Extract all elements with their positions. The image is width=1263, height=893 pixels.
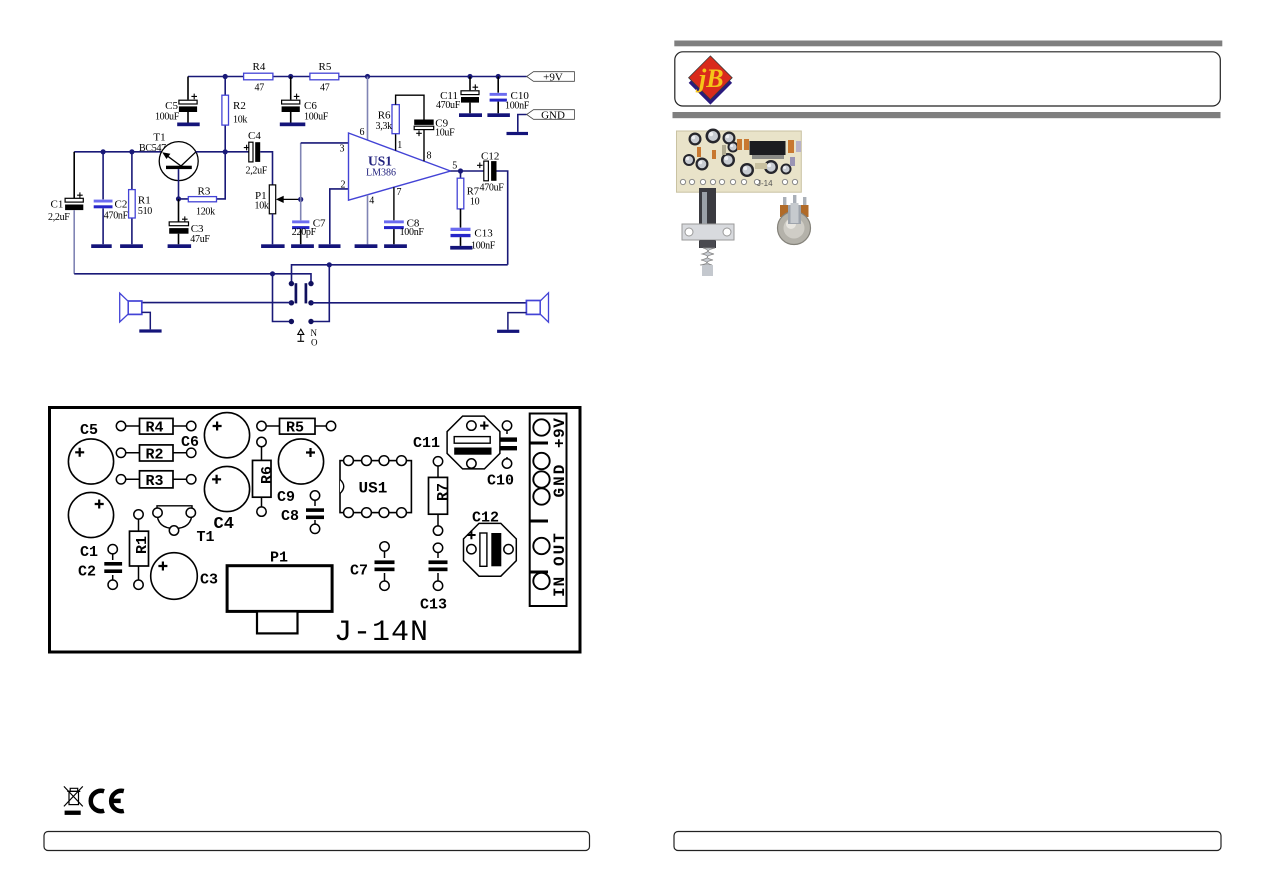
wire +9V top rail bbox=[188, 76, 527, 78]
svg-text:US1: US1 bbox=[368, 153, 392, 168]
wire input net bbox=[74, 151, 162, 153]
svg-text:P1: P1 bbox=[270, 550, 288, 567]
net flag GND bbox=[518, 115, 527, 132]
PCB pad OUT bbox=[533, 538, 549, 554]
PCB capacitor C13 bbox=[433, 543, 442, 552]
svg-text:470nF: 470nF bbox=[104, 210, 129, 221]
resistor R7 bbox=[460, 171, 462, 178]
svg-text:2,2uF: 2,2uF bbox=[48, 212, 70, 223]
wire C4 to P1 bbox=[260, 152, 272, 185]
ground under GND flag bbox=[507, 132, 529, 135]
svg-text:100uF: 100uF bbox=[304, 112, 329, 123]
node input R1 bbox=[129, 149, 134, 154]
logo JB diamond red bbox=[689, 56, 733, 100]
svg-text:OUT: OUT bbox=[551, 531, 569, 566]
svg-text:R5: R5 bbox=[286, 420, 304, 437]
node rail junction pin6 bbox=[365, 74, 370, 79]
svg-text:IN: IN bbox=[551, 576, 569, 597]
wire pin4 bbox=[367, 195, 369, 245]
svg-text:R6: R6 bbox=[259, 466, 276, 484]
node T1 collector bbox=[223, 149, 228, 154]
PCB pad IN bbox=[533, 573, 549, 589]
node rail junction C6 bbox=[288, 74, 293, 79]
svg-text:100nF: 100nF bbox=[505, 101, 530, 112]
svg-text:GND: GND bbox=[551, 463, 569, 498]
svg-text:O: O bbox=[311, 337, 318, 347]
PCB capacitor C10 bbox=[502, 421, 511, 430]
PCB resistor R6 bbox=[261, 447, 263, 507]
svg-text:R6: R6 bbox=[378, 110, 391, 122]
svg-text:T1: T1 bbox=[153, 131, 165, 143]
svg-text:5: 5 bbox=[452, 161, 457, 172]
net flag +9V bbox=[527, 72, 575, 82]
svg-text:100uF: 100uF bbox=[155, 112, 180, 123]
wire C1 to switch net bbox=[73, 210, 75, 274]
wire wiper to pin3 bbox=[300, 143, 302, 200]
node rail junction R2 bbox=[223, 74, 228, 79]
PCB resistor R4 bbox=[121, 425, 191, 427]
svg-text:1: 1 bbox=[397, 140, 402, 151]
CE mark bbox=[91, 791, 124, 811]
svg-text:N: N bbox=[311, 328, 318, 338]
svg-text:C13: C13 bbox=[474, 228, 493, 240]
svg-text:R2: R2 bbox=[233, 100, 246, 112]
resistor R4 bbox=[244, 73, 273, 80]
PCB connector block bbox=[530, 414, 567, 607]
svg-text:470uF: 470uF bbox=[480, 183, 505, 194]
svg-text:C7: C7 bbox=[350, 563, 368, 580]
svg-text:C2: C2 bbox=[78, 564, 96, 581]
capacitor C3 bbox=[178, 199, 180, 222]
svg-text:R4: R4 bbox=[253, 61, 266, 73]
resistor R6 bbox=[395, 134, 397, 151]
svg-text:100nF: 100nF bbox=[471, 240, 496, 251]
svg-text:10uF: 10uF bbox=[435, 128, 455, 139]
resistor R1 bbox=[131, 152, 133, 245]
svg-text:3: 3 bbox=[340, 143, 345, 154]
svg-text:8: 8 bbox=[427, 151, 432, 162]
svg-text:R1: R1 bbox=[138, 195, 151, 207]
gray bar top bbox=[674, 41, 1222, 47]
node rail junction C11 bbox=[467, 74, 472, 79]
svg-text:R3: R3 bbox=[146, 473, 164, 490]
svg-text:4: 4 bbox=[369, 195, 374, 206]
svg-text:220pF: 220pF bbox=[292, 227, 317, 238]
WEEE crossed-out bin symbol bbox=[64, 786, 83, 806]
svg-text:C13: C13 bbox=[420, 597, 447, 614]
resistor R2 bbox=[224, 77, 226, 152]
svg-text:C10: C10 bbox=[487, 473, 514, 490]
capacitor C6 bbox=[290, 77, 292, 100]
svg-text:C1: C1 bbox=[80, 544, 98, 561]
ground under C8 bbox=[384, 244, 407, 248]
svg-text:J-14: J-14 bbox=[757, 179, 773, 188]
capacitor C10 bbox=[497, 77, 499, 93]
node switch net B bbox=[327, 262, 332, 267]
resistor R5 bbox=[310, 73, 339, 80]
footer bar left bbox=[44, 832, 590, 851]
svg-text:C8: C8 bbox=[281, 508, 299, 525]
PCB transistor T1 bbox=[138, 514, 140, 531]
svg-text:+9V: +9V bbox=[551, 418, 569, 448]
svg-text:7: 7 bbox=[397, 187, 402, 198]
capacitor C9 bbox=[414, 120, 434, 125]
node T1 base bbox=[176, 196, 181, 201]
ground under C11 bbox=[459, 113, 482, 117]
svg-text:C6: C6 bbox=[181, 434, 199, 451]
ground under C10 bbox=[487, 113, 510, 117]
svg-text:C9: C9 bbox=[277, 489, 295, 506]
svg-text:100nF: 100nF bbox=[400, 227, 425, 238]
PCB pads GND bbox=[533, 453, 549, 469]
svg-text:10k: 10k bbox=[233, 115, 247, 126]
svg-text:C3: C3 bbox=[191, 223, 204, 235]
svg-text:470uF: 470uF bbox=[436, 100, 461, 111]
ground under C3 bbox=[168, 244, 192, 248]
PCB resistor R5 bbox=[262, 425, 332, 427]
PCB board outline bbox=[50, 408, 581, 653]
node output bbox=[458, 168, 463, 173]
svg-text:R4: R4 bbox=[146, 420, 164, 437]
capacitor C13 bbox=[460, 209, 462, 228]
svg-text:R1: R1 bbox=[134, 536, 151, 554]
svg-text:R7: R7 bbox=[435, 483, 452, 501]
svg-text:3,3k: 3,3k bbox=[376, 121, 393, 132]
svg-text:+9V: +9V bbox=[543, 72, 563, 84]
photo PCB board bbox=[677, 131, 802, 192]
svg-text:C1: C1 bbox=[51, 198, 64, 210]
svg-text:120k: 120k bbox=[196, 207, 215, 218]
ground under C5 bbox=[177, 123, 200, 127]
speaker left bbox=[128, 301, 142, 314]
svg-text:10: 10 bbox=[470, 196, 480, 207]
PCB capacitor C9 bbox=[278, 439, 323, 484]
potentiometer P1 bbox=[269, 185, 275, 214]
gray bar 2 bbox=[673, 112, 1221, 118]
node switch net A bbox=[270, 271, 275, 276]
footer bar right bbox=[674, 832, 1221, 851]
svg-text:47: 47 bbox=[255, 83, 265, 94]
svg-text:C6: C6 bbox=[304, 100, 317, 112]
svg-text:C5: C5 bbox=[80, 422, 98, 439]
svg-text:2: 2 bbox=[341, 179, 346, 190]
PCB capacitor C4 bbox=[204, 466, 249, 511]
PCB resistor R1 bbox=[130, 531, 149, 566]
capacitor C12 bbox=[477, 163, 483, 169]
speaker right bbox=[526, 301, 540, 315]
photo capacitors bbox=[689, 133, 702, 146]
op-amp US1 LM386 bbox=[367, 77, 369, 141]
ground under pin2 bbox=[319, 244, 341, 248]
ground under right speaker bbox=[497, 330, 519, 333]
photo resistors bbox=[737, 139, 742, 150]
photo pads row bbox=[680, 179, 685, 184]
svg-text:510: 510 bbox=[138, 206, 152, 217]
svg-text:R2: R2 bbox=[146, 447, 164, 464]
svg-text:2,2uF: 2,2uF bbox=[246, 166, 268, 177]
svg-text:C5: C5 bbox=[165, 100, 178, 112]
wire R6 to C9 bbox=[396, 95, 424, 119]
ground under C13 bbox=[450, 246, 472, 250]
svg-text:US1: US1 bbox=[359, 480, 388, 498]
PCB resistor R3 bbox=[121, 478, 191, 480]
PCB resistor R2 bbox=[121, 452, 191, 454]
ground under C6 bbox=[280, 123, 306, 127]
svg-text:R5: R5 bbox=[319, 61, 332, 73]
svg-text:jB: jB bbox=[695, 64, 724, 93]
svg-text:10k: 10k bbox=[255, 201, 269, 212]
ground under R1 bbox=[120, 244, 143, 248]
photo IC bbox=[750, 141, 786, 155]
svg-text:6: 6 bbox=[360, 127, 365, 138]
svg-text:C3: C3 bbox=[200, 572, 218, 589]
PCB capacitor C3 bbox=[151, 553, 198, 600]
capacitor C11 bbox=[469, 77, 471, 91]
capacitor C5 bbox=[187, 77, 189, 100]
svg-text:LM386: LM386 bbox=[366, 168, 396, 179]
capacitor C4 bbox=[225, 151, 249, 153]
header box bbox=[675, 52, 1221, 106]
svg-text:C4: C4 bbox=[214, 515, 234, 534]
logo JB diamond shadow bbox=[689, 61, 732, 104]
capacitor C1 bbox=[73, 152, 75, 198]
switch DPST bbox=[289, 281, 294, 286]
svg-text:47: 47 bbox=[320, 83, 330, 94]
wire pin8 bbox=[423, 130, 425, 161]
PCB IC US1 bbox=[340, 461, 411, 513]
node P1 wiper bbox=[298, 197, 303, 202]
node input C2 bbox=[101, 149, 106, 154]
svg-text:GND: GND bbox=[541, 110, 565, 122]
ground under C7 bbox=[291, 244, 314, 248]
svg-text:C4: C4 bbox=[248, 130, 261, 142]
wire right speaker net bbox=[311, 302, 526, 304]
svg-text:C11: C11 bbox=[413, 435, 440, 452]
capacitor C8 bbox=[393, 187, 395, 220]
wire left speaker net bbox=[142, 302, 292, 304]
svg-text:R3: R3 bbox=[198, 186, 211, 198]
PCB pad +9V bbox=[533, 419, 549, 435]
ground under left speaker bbox=[139, 329, 161, 332]
wire pin2 bbox=[330, 189, 349, 244]
node rail junction C10 bbox=[496, 74, 501, 79]
svg-text:C2: C2 bbox=[115, 198, 128, 210]
PCB capacitor C1 body bbox=[68, 492, 113, 537]
wire output pin5 bbox=[451, 170, 484, 172]
wire C12 to speaker net bbox=[497, 171, 508, 265]
ground under P1 bbox=[261, 244, 285, 248]
ground under pin4 bbox=[355, 244, 378, 248]
svg-text:C12: C12 bbox=[481, 151, 499, 163]
svg-text:J-14N: J-14N bbox=[334, 616, 429, 650]
PCB resistor R7 bbox=[437, 466, 439, 526]
capacitor C2 bbox=[102, 152, 104, 245]
photo jack connector bbox=[699, 188, 716, 248]
svg-text:47uF: 47uF bbox=[190, 234, 210, 245]
switch actuator symbol bbox=[298, 335, 305, 342]
resistor R3 bbox=[179, 152, 226, 199]
capacitor C7 bbox=[292, 220, 309, 223]
ground under C2 bbox=[91, 244, 112, 248]
svg-text:T1: T1 bbox=[197, 529, 215, 546]
photo potentiometer bbox=[783, 197, 786, 207]
